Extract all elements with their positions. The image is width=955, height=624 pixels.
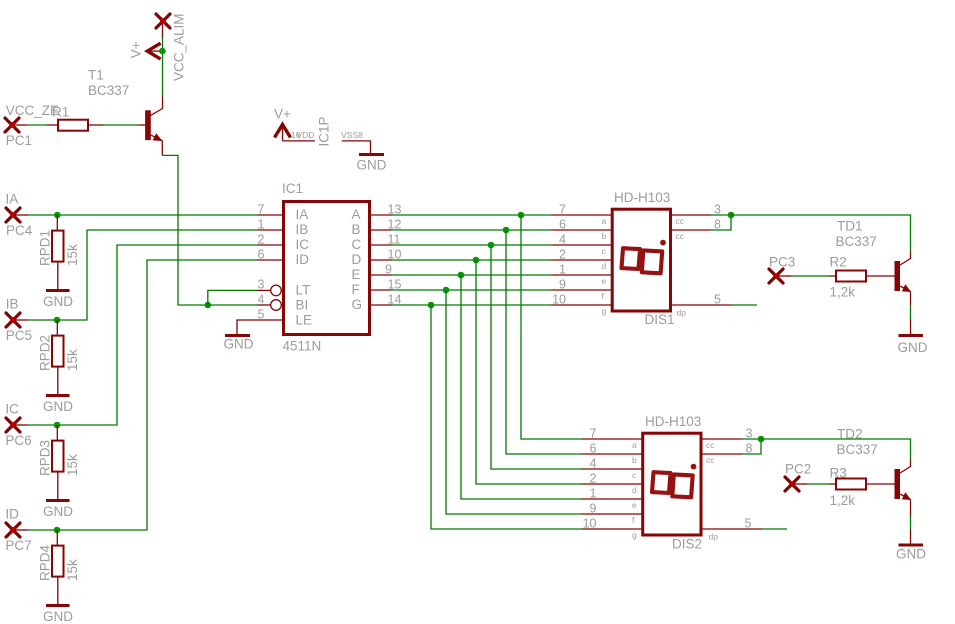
svg-text:IA: IA — [296, 207, 309, 222]
svg-text:GND: GND — [43, 294, 73, 309]
svg-text:IB: IB — [6, 297, 19, 312]
svg-text:BC337: BC337 — [88, 83, 129, 98]
svg-text:D: D — [352, 252, 362, 267]
svg-text:cc: cc — [706, 455, 715, 465]
transistor TD2 — [895, 469, 912, 500]
junction c — [488, 242, 495, 249]
wire segment F: IC1 pin15 to DIS1 f — [371, 289, 612, 291]
svg-text:VS: VS — [341, 130, 353, 140]
svg-text:BI: BI — [296, 298, 309, 313]
ground symbol TD2 — [896, 545, 926, 562]
svg-text:1,2k: 1,2k — [830, 493, 856, 508]
wire IA to IC1 pin 7 — [13, 214, 283, 216]
svg-text:RPD2: RPD2 — [38, 335, 53, 371]
svg-text:15k: 15k — [65, 244, 80, 266]
svg-text:a: a — [602, 216, 607, 226]
svg-text:GND: GND — [43, 399, 73, 414]
wire drop e to DIS2 — [461, 275, 642, 499]
svg-text:cc: cc — [676, 216, 685, 226]
wire drop a to DIS2 — [521, 215, 642, 439]
svg-text:g: g — [632, 530, 637, 540]
svg-text:2: 2 — [258, 233, 265, 247]
svg-text:7: 7 — [559, 203, 566, 217]
svg-text:b: b — [632, 455, 637, 465]
wire DIS2 cc pin8 up to junction — [701, 439, 761, 454]
svg-text:GND: GND — [43, 609, 73, 624]
wire PC1 to R1 — [12, 124, 58, 126]
svg-text:GND: GND — [224, 337, 254, 352]
wire TD2 emitter to ground — [910, 500, 912, 544]
svg-text:LT: LT — [296, 283, 311, 298]
svg-text:2: 2 — [590, 472, 597, 486]
wire T1 emitter down to LT/BI node — [162, 141, 208, 305]
junction b — [503, 227, 510, 234]
svg-text:PC2: PC2 — [785, 462, 811, 477]
wire DIS2 cc pin3 to junction — [701, 438, 761, 440]
svg-text:ID: ID — [5, 507, 19, 522]
wire drop f to DIS2 — [446, 290, 642, 514]
wire R1 to T1 base — [88, 124, 145, 126]
svg-text:IC: IC — [5, 402, 19, 417]
ground symbol TD1 — [898, 336, 928, 356]
pin connector X VCC_ALIM — [156, 14, 170, 28]
wire TD1 emitter to ground — [910, 292, 912, 335]
svg-text:cc: cc — [676, 231, 685, 241]
svg-text:dp: dp — [709, 532, 719, 542]
svg-text:RPD4: RPD4 — [38, 544, 53, 581]
svg-text:E: E — [352, 267, 361, 282]
svg-text:TD2: TD2 — [837, 427, 863, 442]
svg-text:A: A — [352, 207, 361, 222]
wire R3 to TD2 base — [866, 483, 895, 485]
wire VCC_ALIM to T1 collector — [151, 21, 163, 115]
wire segment E: IC1 pin9 to DIS1 e — [371, 274, 612, 276]
svg-text:PC4: PC4 — [6, 223, 33, 238]
wire R2 to TD1 base — [866, 275, 895, 277]
ground symbol RPD1 — [43, 291, 73, 310]
wire segment A: IC1 pin13 to DIS1 a — [371, 214, 612, 216]
svg-text:LE: LE — [296, 313, 313, 328]
svg-text:15k: 15k — [65, 349, 80, 371]
display DIS1 HD-H103 box — [612, 209, 670, 311]
svg-text:TD1: TD1 — [837, 219, 863, 234]
svg-text:BC337: BC337 — [836, 234, 877, 249]
DIS1 7-segment digit — [622, 240, 666, 274]
wire ID to IC1 pin 6 — [13, 260, 283, 530]
svg-text:IC1: IC1 — [282, 181, 303, 196]
svg-text:PC1: PC1 — [6, 133, 32, 148]
wire cc node to TD2 collector — [761, 439, 911, 473]
svg-text:6: 6 — [590, 442, 597, 456]
svg-text:10: 10 — [552, 293, 566, 307]
wire DIS2 dp pin5 stub — [701, 528, 787, 530]
wire cc node to TD1 collector — [731, 215, 911, 265]
wire segment D: IC1 pin10 to DIS1 d — [371, 259, 612, 261]
junction V+ node — [159, 48, 166, 55]
wire DIS1 cc pin8 up to junction — [671, 215, 732, 230]
resistor R2 — [836, 271, 866, 282]
svg-text:4511N: 4511N — [283, 339, 322, 354]
wire IC to IC1 pin 2 — [13, 245, 283, 425]
svg-text:b: b — [602, 231, 607, 241]
IC1P pin VSS (8) — [341, 130, 371, 153]
svg-text:1: 1 — [590, 487, 597, 501]
wire segment C: IC1 pin11 to DIS1 c — [371, 244, 612, 246]
svg-text:RPD3: RPD3 — [38, 440, 53, 476]
ground symbol RPD4 — [43, 606, 73, 624]
resistor RPD1 — [52, 215, 64, 289]
ground symbol RPD3 — [43, 501, 73, 520]
svg-text:IC1P: IC1P — [317, 116, 332, 146]
wire drop g to DIS2 — [431, 305, 642, 529]
svg-text:R2: R2 — [830, 255, 847, 270]
svg-text:VCC_ALIM: VCC_ALIM — [172, 13, 187, 81]
svg-text:F: F — [352, 282, 360, 297]
svg-text:2: 2 — [559, 248, 566, 262]
svg-text:PC3: PC3 — [769, 255, 795, 270]
svg-text:dp: dp — [677, 308, 687, 318]
svg-text:6: 6 — [559, 218, 566, 232]
junction IC/RPD3 — [54, 422, 61, 429]
wire node to LT — [208, 290, 271, 305]
svg-text:PC5: PC5 — [6, 328, 32, 343]
junction e — [458, 272, 465, 279]
node IB input: X PC5 — [6, 297, 32, 344]
node ID input: X PC7 — [5, 507, 31, 554]
wire segment B: IC1 pin12 to DIS1 b — [371, 229, 612, 231]
svg-text:R1: R1 — [52, 105, 69, 120]
wire drop b to DIS2 — [506, 230, 642, 454]
transistor T1 — [145, 110, 162, 141]
wire segment G: IC1 pin14 to DIS1 g — [371, 304, 612, 306]
resistor RPD2 — [52, 320, 64, 394]
svg-text:4: 4 — [590, 457, 597, 471]
resistor R3 — [836, 479, 866, 490]
svg-text:PC7: PC7 — [5, 538, 31, 553]
svg-text:RPD1: RPD1 — [38, 230, 53, 266]
svg-text:cc: cc — [706, 440, 715, 450]
svg-text:GND: GND — [43, 504, 73, 519]
transistor TD1 — [895, 261, 912, 292]
resistor R1 — [58, 120, 88, 131]
wire DIS1 cc pin3 to junction — [671, 214, 732, 216]
svg-text:DIS2: DIS2 — [672, 537, 702, 552]
wire drop c to DIS2 — [491, 245, 642, 469]
svg-text:15k: 15k — [65, 454, 80, 476]
wire PC3 to R2 — [776, 275, 836, 277]
svg-text:15k: 15k — [65, 559, 80, 581]
ground symbol at IC1P — [357, 155, 387, 173]
svg-text:T1: T1 — [88, 68, 104, 83]
svg-text:DIS1: DIS1 — [645, 312, 675, 327]
junction IA/RPD1 — [54, 212, 61, 219]
junction f — [443, 287, 450, 294]
IC1P pin VDD (16) — [283, 130, 315, 141]
ground symbol RPD2 — [43, 396, 73, 415]
svg-text:9: 9 — [559, 278, 566, 292]
wire PC2 to R3 — [792, 483, 836, 485]
pin connector X PC1 — [5, 118, 19, 132]
svg-text:d: d — [632, 485, 637, 495]
resistor RPD3 — [52, 425, 64, 499]
ground symbol at LE — [224, 336, 254, 352]
svg-text:G: G — [352, 297, 363, 312]
resistor RPD4 — [52, 530, 64, 604]
node IA input: X PC4 — [6, 192, 33, 239]
svg-text:HD-H103: HD-H103 — [614, 190, 670, 205]
DIS2 7-segment digit — [652, 464, 696, 498]
pin connector X PC2 — [785, 477, 799, 491]
junction g — [428, 302, 435, 309]
svg-text:IA: IA — [6, 192, 19, 207]
inversion bubble LT — [271, 285, 282, 296]
svg-text:1: 1 — [559, 263, 566, 277]
junction DIS1 cc node — [728, 212, 735, 219]
junction d — [473, 257, 480, 264]
svg-text:PC6: PC6 — [5, 433, 31, 448]
svg-text:d: d — [602, 261, 607, 271]
node IC input: X PC6 — [5, 402, 31, 449]
wire DIS1 dp pin5 stub — [671, 304, 758, 306]
IC U1 4511N box — [284, 202, 370, 335]
svg-text:VCC_ZE: VCC_ZE — [6, 103, 59, 118]
svg-text:GND: GND — [898, 340, 928, 355]
wire node to BI — [208, 304, 271, 306]
svg-text:VDD: VDD — [297, 130, 315, 140]
svg-text:7: 7 — [590, 427, 597, 441]
junction IB/RPD2 — [54, 317, 61, 324]
svg-text:V+: V+ — [274, 106, 291, 121]
svg-text:e: e — [602, 276, 607, 286]
svg-text:BC337: BC337 — [837, 442, 878, 457]
power symbol V+ (rotated) — [147, 43, 162, 59]
junction LT/BI node — [205, 302, 212, 309]
inversion bubble BI — [271, 300, 282, 311]
svg-text:1,2k: 1,2k — [830, 285, 856, 300]
junction a — [518, 212, 525, 219]
svg-text:a: a — [632, 440, 637, 450]
svg-text:S8: S8 — [353, 130, 364, 140]
svg-text:C: C — [352, 237, 362, 252]
power symbol V+ for IC1P — [274, 106, 291, 141]
display DIS2 HD-H103 box — [643, 433, 701, 535]
svg-text:6: 6 — [258, 248, 265, 262]
svg-text:10: 10 — [583, 517, 597, 531]
svg-text:ID: ID — [296, 252, 310, 267]
wire IB to IC1 pin 1 — [13, 230, 283, 320]
svg-text:7: 7 — [258, 203, 265, 217]
svg-text:IC: IC — [296, 237, 310, 252]
junction ID/RPD4 — [54, 527, 61, 534]
wire LE pin 5 to ground — [237, 320, 283, 334]
svg-text:GND: GND — [357, 158, 387, 173]
svg-text:3: 3 — [258, 278, 265, 292]
svg-text:4: 4 — [258, 293, 265, 307]
svg-text:g: g — [602, 306, 607, 316]
svg-text:e: e — [632, 500, 637, 510]
svg-text:IB: IB — [296, 222, 309, 237]
wire drop d to DIS2 — [476, 260, 642, 484]
svg-text:1: 1 — [258, 218, 265, 232]
svg-text:B: B — [352, 222, 361, 237]
svg-text:HD-H103: HD-H103 — [645, 414, 701, 429]
svg-text:V+: V+ — [129, 41, 144, 58]
svg-text:4: 4 — [559, 233, 566, 247]
junction DIS2 cc node — [758, 436, 765, 443]
svg-text:GND: GND — [896, 547, 926, 562]
svg-text:9: 9 — [590, 502, 597, 516]
pin connector X PC3 — [769, 269, 783, 283]
